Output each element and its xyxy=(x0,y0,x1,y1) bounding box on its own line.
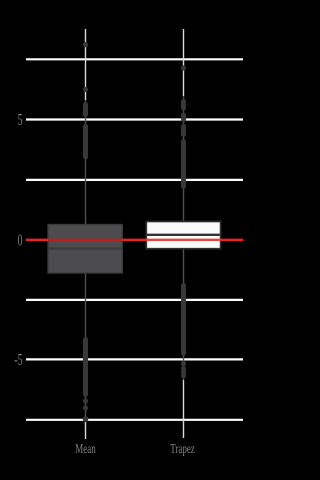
horizontal gridlines (white) xyxy=(26,59,243,420)
vertical line Mean: dim middle xyxy=(85,100,87,225)
red zero line segments xyxy=(26,239,243,241)
Mean outlier dots xyxy=(83,42,89,422)
Mean box xyxy=(48,225,122,274)
vertical line Mean: bright top xyxy=(85,29,87,100)
Trapez box xyxy=(146,222,220,249)
vertical line Mean: dim below box xyxy=(85,273,87,420)
Mean median xyxy=(48,247,122,249)
vertical line Mean: bright bottom xyxy=(85,422,87,439)
vertical line Trapez: bright bottom xyxy=(183,380,185,438)
svg-text:0: 0 xyxy=(18,232,23,250)
svg-text:Trapez: Trapez xyxy=(170,442,195,456)
vertical line Trapez: dim below box xyxy=(183,249,185,380)
vertical line Trapez: bright top xyxy=(183,29,185,96)
Trapez outlier dots xyxy=(181,65,186,378)
svg-text:Mean: Mean xyxy=(75,442,96,456)
vertical line Trapez: dim middle xyxy=(183,96,185,222)
svg-text:-5: -5 xyxy=(14,352,22,370)
svg-text:5: 5 xyxy=(18,112,23,130)
Trapez median xyxy=(147,234,220,236)
